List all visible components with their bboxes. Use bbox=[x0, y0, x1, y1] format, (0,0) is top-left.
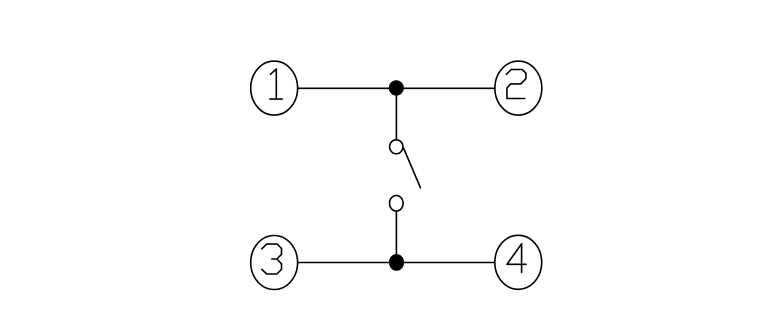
pin 1 number label "1" bbox=[270, 69, 282, 99]
switch SW1 top contact circle bbox=[390, 140, 403, 154]
wire bottom junction up to fixed contact bbox=[395, 210, 397, 262]
wire bottom junction to pin4 bbox=[396, 262, 494, 264]
wire pin1 to top junction bbox=[298, 87, 396, 89]
pin 3 terminal circle bbox=[251, 236, 298, 290]
wire top junction down to moving contact bbox=[395, 88, 397, 140]
pin 3 number label "3" bbox=[262, 244, 282, 274]
pin 4 number label "4" bbox=[507, 244, 526, 273]
node B bottom junction dot bbox=[389, 254, 404, 271]
pin 1 terminal circle bbox=[251, 61, 298, 115]
node A top junction dot bbox=[389, 80, 404, 95]
wire top junction to pin2 bbox=[396, 87, 494, 89]
switch SW1 bottom contact circle bbox=[390, 196, 404, 212]
pin 2 number label "2" bbox=[507, 70, 526, 99]
pin 2 terminal circle bbox=[495, 61, 542, 115]
pin 4 terminal circle bbox=[495, 235, 542, 289]
switch SW1 actuator lever bbox=[404, 149, 421, 188]
wire pin3 to bottom junction bbox=[298, 262, 396, 264]
